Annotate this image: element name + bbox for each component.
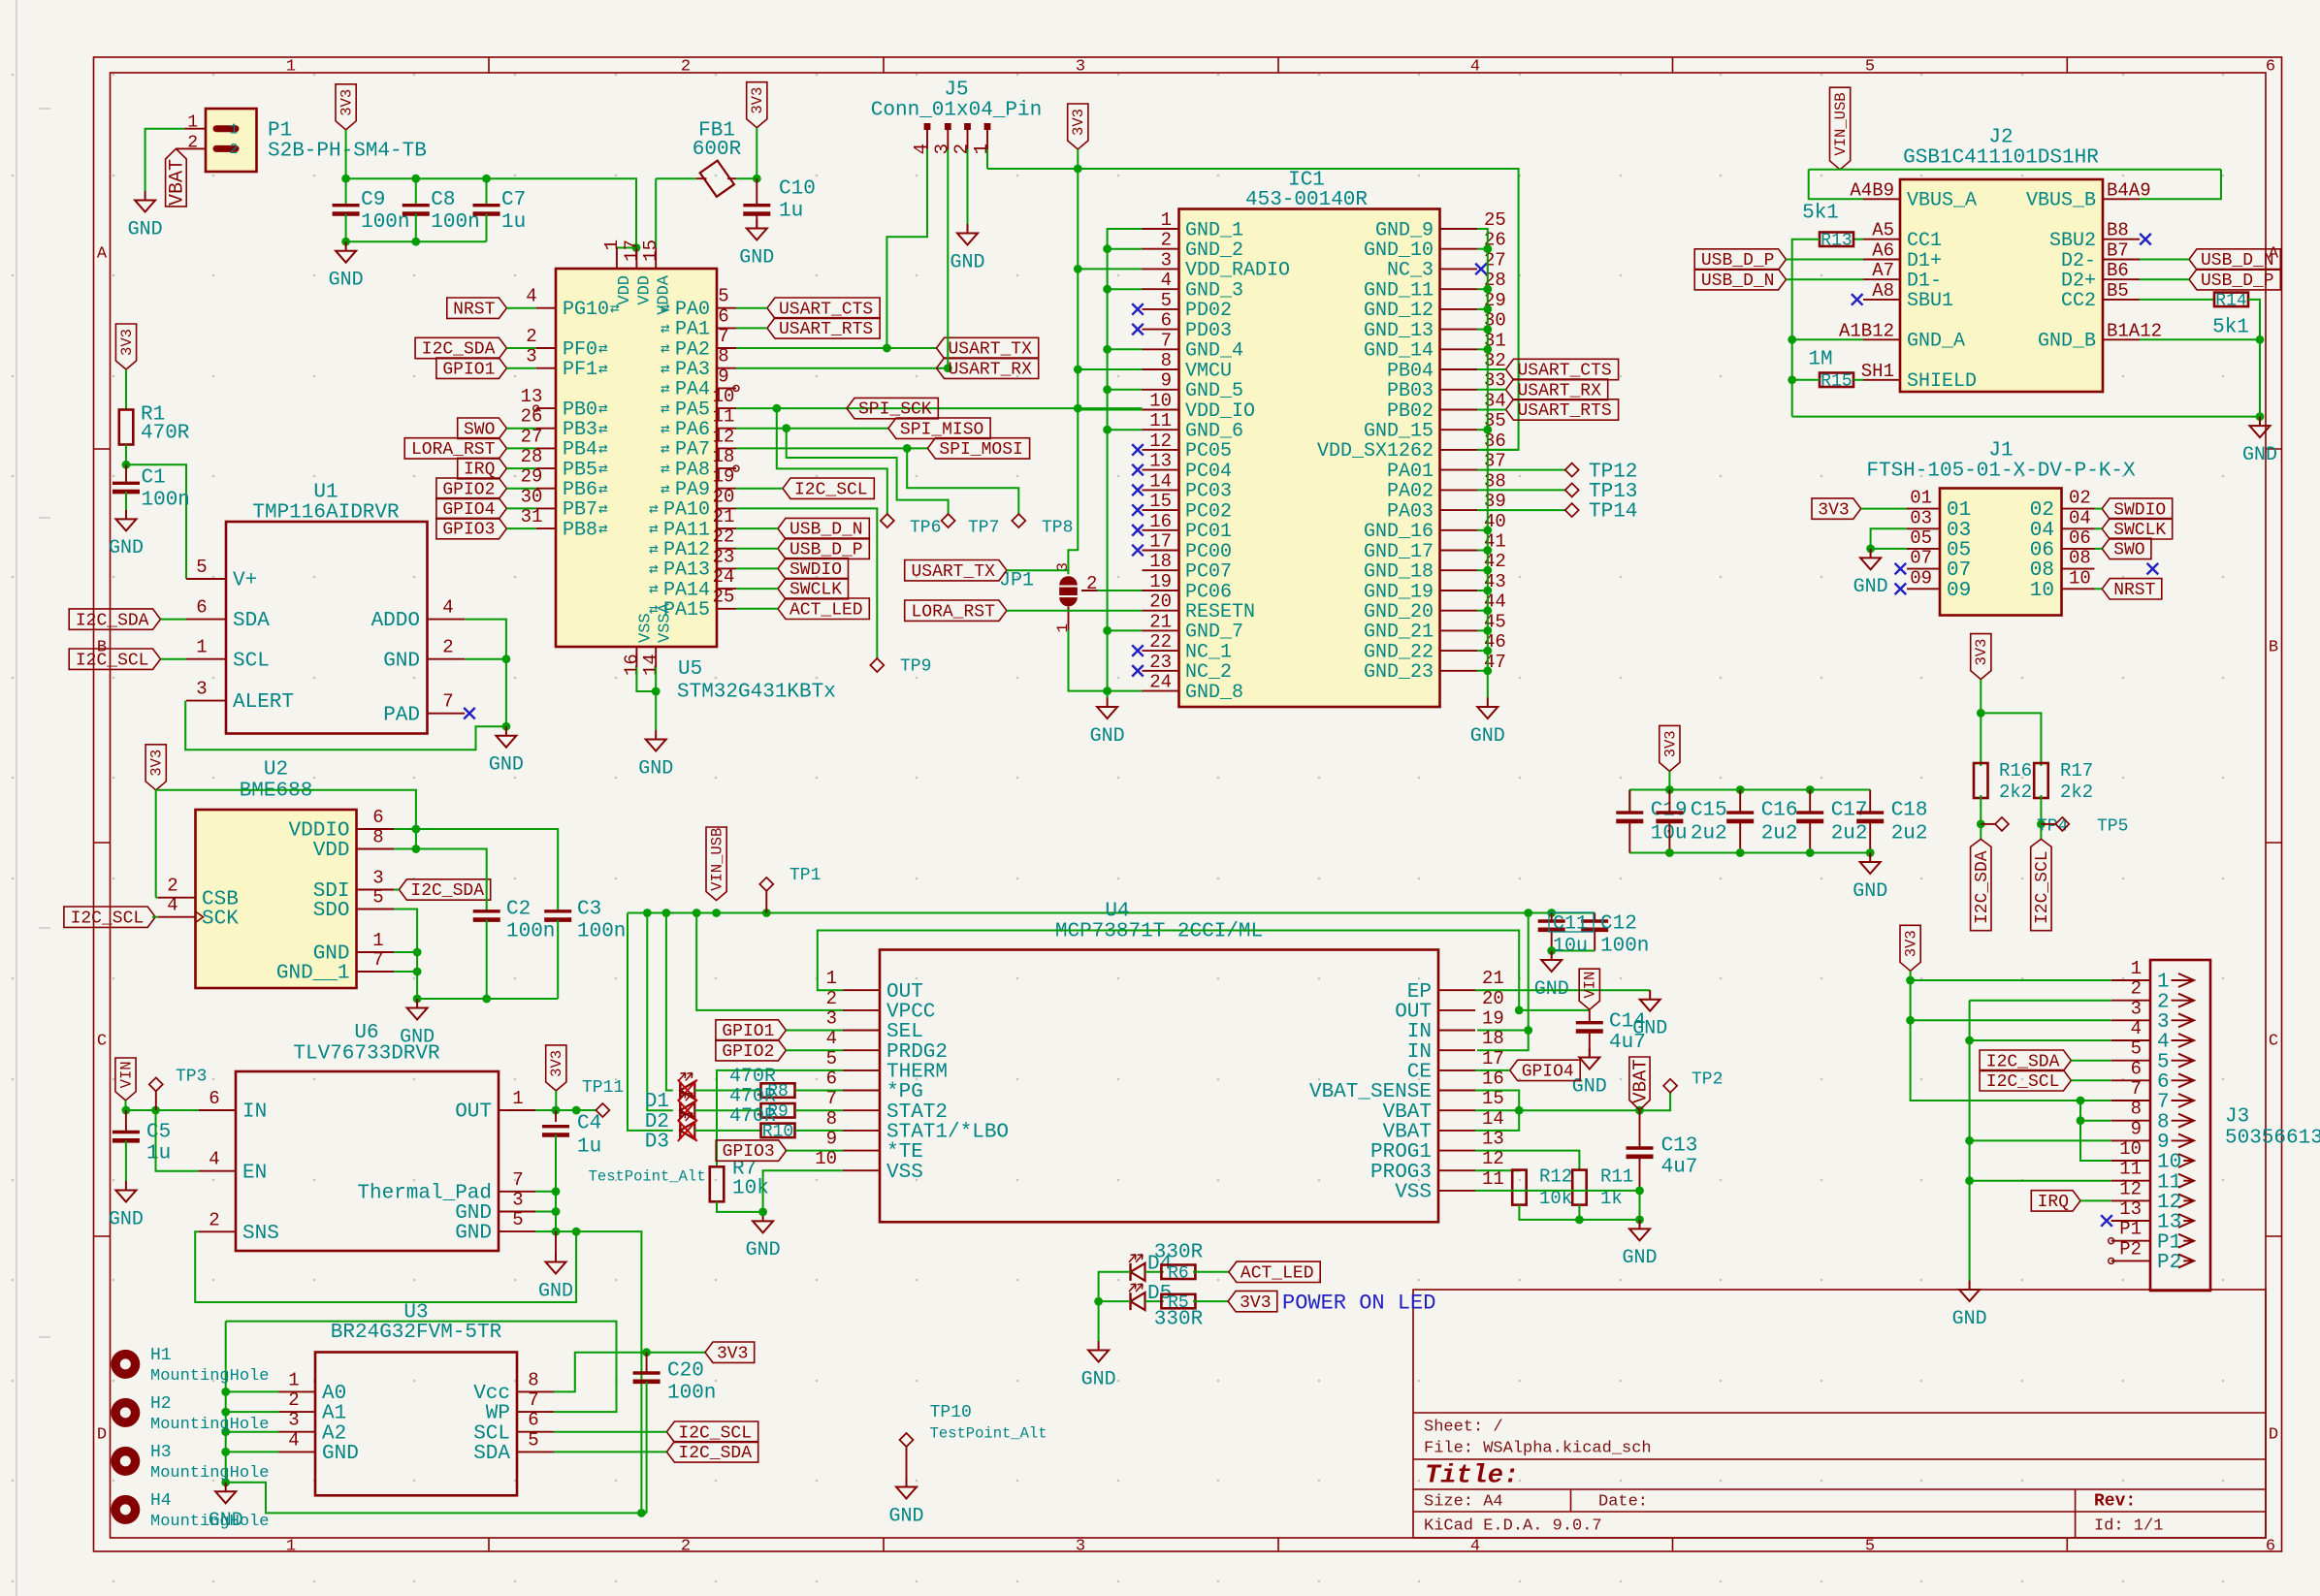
svg-text:GND: GND — [1952, 1308, 1987, 1330]
svg-text:⇄: ⇄ — [598, 481, 608, 498]
svg-text:B5: B5 — [2107, 280, 2129, 302]
svg-text:5: 5 — [2157, 1051, 2170, 1073]
svg-text:453-00140R: 453-00140R — [1245, 189, 1368, 211]
svg-text:GND: GND — [1090, 725, 1125, 748]
svg-text:VSS: VSS — [636, 613, 655, 643]
svg-text:07: 07 — [1947, 559, 1971, 582]
svg-text:STAT2: STAT2 — [886, 1101, 948, 1124]
svg-text:C20: C20 — [667, 1360, 704, 1383]
svg-text:⇄: ⇄ — [598, 400, 608, 418]
svg-text:A: A — [97, 244, 108, 263]
svg-text:GND_23: GND_23 — [1364, 661, 1434, 684]
svg-text:J3: J3 — [2225, 1106, 2249, 1129]
svg-text:PA4: PA4 — [675, 379, 710, 401]
svg-text:PA3: PA3 — [675, 359, 710, 381]
svg-text:USART_RTS: USART_RTS — [1518, 401, 1612, 421]
svg-text:19: 19 — [713, 466, 735, 488]
svg-text:MCP73871T-2CCI/ML: MCP73871T-2CCI/ML — [1055, 921, 1263, 943]
svg-text:17: 17 — [621, 239, 642, 262]
svg-text:09: 09 — [1910, 567, 1932, 589]
svg-text:A6: A6 — [1872, 239, 1894, 261]
svg-text:C2: C2 — [506, 899, 531, 921]
svg-text:R11: R11 — [1600, 1166, 1633, 1188]
svg-text:4: 4 — [288, 1429, 299, 1451]
svg-text:12: 12 — [2119, 1178, 2142, 1199]
svg-text:SPI_SCK: SPI_SCK — [858, 400, 932, 420]
svg-text:TMP116AIDRVR: TMP116AIDRVR — [252, 502, 400, 525]
svg-text:POWER ON LED: POWER ON LED — [1282, 1291, 1435, 1315]
svg-text:VDD: VDD — [635, 275, 654, 305]
svg-text:BME688: BME688 — [240, 781, 313, 803]
svg-text:3V3: 3V3 — [1973, 639, 1990, 666]
svg-text:GND_22: GND_22 — [1364, 641, 1434, 663]
svg-text:7: 7 — [372, 949, 383, 971]
svg-text:⇄: ⇄ — [661, 380, 670, 398]
svg-text:OUT: OUT — [1395, 1002, 1432, 1024]
svg-text:B: B — [2269, 638, 2278, 656]
svg-text:GND_10: GND_10 — [1364, 239, 1434, 262]
svg-text:PC05: PC05 — [1185, 440, 1232, 463]
svg-text:1: 1 — [196, 637, 207, 658]
svg-text:1: 1 — [286, 1537, 296, 1555]
svg-text:GND: GND — [383, 650, 420, 672]
svg-text:SCK: SCK — [202, 908, 239, 930]
svg-text:SPI_MOSI: SPI_MOSI — [939, 440, 1022, 460]
svg-text:PF0: PF0 — [563, 338, 597, 361]
svg-text:14: 14 — [640, 654, 661, 676]
svg-text:⇄: ⇄ — [598, 461, 608, 478]
svg-text:CC1: CC1 — [1907, 230, 1942, 252]
svg-text:USB_D_P: USB_D_P — [789, 540, 863, 559]
svg-text:5k1: 5k1 — [2212, 317, 2249, 339]
svg-text:IRQ: IRQ — [464, 461, 495, 480]
svg-text:IRQ: IRQ — [2038, 1193, 2069, 1212]
svg-text:1u: 1u — [577, 1135, 601, 1158]
svg-text:15: 15 — [640, 239, 661, 262]
svg-text:5: 5 — [718, 286, 728, 307]
svg-text:VSSA: VSSA — [656, 602, 674, 643]
svg-text:STAT1/*LBO: STAT1/*LBO — [886, 1122, 1009, 1144]
svg-text:SWO: SWO — [2113, 541, 2144, 560]
svg-text:H4: H4 — [150, 1491, 172, 1511]
svg-text:3V3: 3V3 — [118, 329, 136, 356]
svg-text:VIN_USB: VIN_USB — [1832, 92, 1850, 155]
svg-text:1u: 1u — [146, 1143, 171, 1165]
svg-text:GND: GND — [455, 1223, 492, 1245]
svg-text:14: 14 — [1482, 1108, 1504, 1130]
svg-text:GND_20: GND_20 — [1364, 601, 1434, 623]
svg-text:A1B12: A1B12 — [1839, 320, 1894, 341]
svg-text:WP: WP — [486, 1403, 510, 1425]
svg-text:P1: P1 — [2157, 1231, 2181, 1254]
svg-text:PA01: PA01 — [1387, 461, 1434, 483]
svg-text:PA9: PA9 — [675, 479, 710, 501]
svg-text:MountingHole: MountingHole — [150, 1416, 269, 1434]
svg-text:20: 20 — [713, 486, 735, 507]
svg-text:GPIO1: GPIO1 — [442, 360, 495, 379]
svg-text:USB_D_P: USB_D_P — [1701, 251, 1775, 271]
svg-text:24: 24 — [713, 566, 735, 588]
svg-text:8: 8 — [1161, 350, 1172, 371]
svg-text:P1: P1 — [2119, 1219, 2142, 1240]
svg-text:100n: 100n — [431, 211, 479, 234]
svg-text:5: 5 — [512, 1209, 523, 1230]
svg-text:GND_A: GND_A — [1907, 331, 1965, 353]
svg-text:S2B-PH-SM4-TB: S2B-PH-SM4-TB — [268, 141, 427, 163]
svg-text:13: 13 — [2119, 1198, 2142, 1220]
svg-text:TP2: TP2 — [1692, 1070, 1723, 1090]
svg-text:1: 1 — [512, 1088, 523, 1109]
svg-text:4: 4 — [1470, 57, 1480, 76]
svg-text:GND_B: GND_B — [2038, 331, 2096, 353]
svg-text:D1-: D1- — [1907, 271, 1942, 293]
svg-text:C: C — [97, 1032, 107, 1050]
svg-text:GND: GND — [1572, 1075, 1607, 1098]
svg-text:SHIELD: SHIELD — [1907, 370, 1977, 393]
svg-text:04: 04 — [2069, 507, 2091, 528]
svg-text:⇄: ⇄ — [649, 541, 659, 559]
svg-text:9: 9 — [718, 366, 728, 387]
svg-text:Id: 1/1: Id: 1/1 — [2094, 1516, 2163, 1535]
svg-text:I2C_SDA: I2C_SDA — [1986, 1052, 2060, 1071]
svg-text:5: 5 — [826, 1048, 837, 1069]
svg-text:3: 3 — [1076, 57, 1085, 76]
svg-text:GPIO3: GPIO3 — [442, 521, 495, 540]
svg-text:C1: C1 — [142, 467, 166, 490]
svg-text:U6: U6 — [354, 1022, 378, 1044]
svg-text:PA8: PA8 — [675, 459, 710, 481]
svg-text:C: C — [2269, 1032, 2278, 1050]
svg-text:⇄: ⇄ — [649, 500, 659, 518]
svg-text:7: 7 — [1161, 330, 1172, 351]
svg-text:4: 4 — [167, 895, 177, 916]
svg-text:3V3: 3V3 — [1818, 500, 1849, 520]
svg-text:PA02: PA02 — [1387, 481, 1434, 503]
svg-text:8: 8 — [826, 1108, 837, 1130]
svg-text:Title:: Title: — [1425, 1462, 1519, 1491]
svg-text:PB7: PB7 — [563, 499, 597, 522]
svg-text:10: 10 — [2157, 1152, 2181, 1174]
svg-text:SNS: SNS — [242, 1223, 279, 1245]
svg-text:TP13: TP13 — [1589, 481, 1637, 503]
svg-text:SDA: SDA — [233, 610, 270, 632]
svg-text:MountingHole: MountingHole — [150, 1464, 269, 1483]
svg-text:1: 1 — [2157, 972, 2170, 994]
svg-text:Conn_01x04_Pin: Conn_01x04_Pin — [871, 100, 1042, 122]
svg-text:11: 11 — [713, 406, 735, 428]
svg-text:09: 09 — [1947, 580, 1971, 602]
svg-text:2u2: 2u2 — [1891, 823, 1928, 846]
svg-text:TP7: TP7 — [968, 519, 999, 538]
svg-text:C13: C13 — [1661, 1135, 1698, 1158]
svg-text:A7: A7 — [1872, 260, 1894, 281]
svg-text:SBU1: SBU1 — [1907, 290, 1953, 312]
svg-text:⇄: ⇄ — [661, 320, 670, 337]
svg-text:C9: C9 — [361, 189, 385, 211]
svg-text:2: 2 — [526, 326, 536, 347]
svg-text:GND: GND — [746, 1239, 781, 1261]
svg-text:P2: P2 — [2157, 1252, 2181, 1274]
svg-text:TLV76733DRVR: TLV76733DRVR — [293, 1043, 440, 1066]
svg-text:PB02: PB02 — [1387, 400, 1434, 423]
svg-text:3: 3 — [2157, 1011, 2170, 1034]
svg-text:3V3: 3V3 — [548, 1050, 565, 1077]
svg-text:OUT: OUT — [886, 981, 923, 1004]
svg-text:FTSH-105-01-X-DV-P-K-X: FTSH-105-01-X-DV-P-K-X — [1866, 461, 2136, 483]
svg-text:PA14: PA14 — [663, 579, 710, 601]
svg-text:2k2: 2k2 — [1999, 782, 2032, 803]
svg-text:R15: R15 — [1821, 371, 1852, 391]
svg-text:C17: C17 — [1831, 800, 1868, 822]
svg-text:2: 2 — [187, 134, 198, 153]
svg-text:GND: GND — [1622, 1247, 1657, 1269]
svg-text:B8: B8 — [2107, 220, 2129, 241]
svg-text:07: 07 — [1910, 548, 1932, 569]
svg-text:4u7: 4u7 — [1661, 1157, 1698, 1179]
svg-text:6: 6 — [2266, 1537, 2275, 1555]
svg-text:GND: GND — [888, 1505, 923, 1527]
svg-text:VDDA: VDDA — [655, 274, 673, 315]
svg-text:GND_17: GND_17 — [1364, 541, 1434, 563]
svg-text:100n: 100n — [142, 490, 190, 512]
svg-text:PA12: PA12 — [663, 539, 710, 561]
svg-text:TP14: TP14 — [1589, 501, 1637, 524]
svg-text:10: 10 — [2030, 580, 2054, 602]
svg-text:C4: C4 — [577, 1113, 601, 1135]
svg-text:USART_TX: USART_TX — [949, 340, 1033, 360]
svg-text:08: 08 — [2069, 548, 2091, 569]
svg-text:3: 3 — [2131, 998, 2142, 1019]
svg-text:4: 4 — [911, 144, 932, 154]
svg-text:NC_2: NC_2 — [1185, 661, 1232, 684]
svg-text:11: 11 — [1482, 1168, 1504, 1190]
svg-text:7: 7 — [2157, 1092, 2170, 1114]
svg-text:25: 25 — [1484, 209, 1506, 231]
svg-text:7: 7 — [528, 1389, 538, 1411]
svg-text:3: 3 — [826, 1008, 837, 1030]
svg-text:2u2: 2u2 — [1691, 823, 1727, 846]
svg-text:GND_18: GND_18 — [1364, 561, 1434, 584]
svg-text:3V3: 3V3 — [1240, 1293, 1271, 1313]
svg-text:4: 4 — [1470, 1537, 1480, 1555]
svg-text:⇄: ⇄ — [649, 561, 659, 579]
svg-text:1: 1 — [229, 121, 238, 138]
svg-text:GND: GND — [128, 218, 163, 240]
svg-text:PA11: PA11 — [663, 519, 710, 541]
svg-text:SDO: SDO — [313, 900, 350, 922]
svg-text:5: 5 — [196, 557, 207, 578]
svg-text:20: 20 — [1149, 591, 1172, 613]
svg-text:VBAT: VBAT — [1383, 1122, 1432, 1144]
svg-text:VIN: VIN — [117, 1061, 135, 1088]
svg-text:TP12: TP12 — [1589, 461, 1637, 483]
svg-text:C14: C14 — [1609, 1011, 1646, 1034]
svg-text:P2: P2 — [2119, 1238, 2142, 1260]
svg-text:U4: U4 — [1105, 901, 1129, 923]
svg-text:PA5: PA5 — [675, 399, 710, 421]
svg-text:VDD_SX1262: VDD_SX1262 — [1317, 440, 1434, 463]
svg-text:05: 05 — [1910, 527, 1932, 549]
svg-text:16: 16 — [1149, 511, 1172, 532]
svg-text:GND: GND — [1853, 880, 1887, 903]
svg-text:330R: 330R — [1154, 1242, 1204, 1264]
svg-text:9: 9 — [2131, 1118, 2142, 1139]
svg-text:2: 2 — [442, 637, 453, 658]
svg-text:4: 4 — [2131, 1018, 2142, 1039]
svg-text:24: 24 — [1149, 672, 1172, 693]
svg-text:MountingHole: MountingHole — [150, 1367, 269, 1386]
svg-text:Rev:: Rev: — [2094, 1492, 2136, 1512]
svg-text:B4A9: B4A9 — [2107, 179, 2151, 201]
svg-text:PC06: PC06 — [1185, 581, 1232, 603]
svg-text:2k2: 2k2 — [2060, 782, 2093, 803]
svg-text:File: WSAlpha.kicad_sch: File: WSAlpha.kicad_sch — [1424, 1439, 1652, 1457]
svg-text:ACT_LED: ACT_LED — [1241, 1264, 1314, 1284]
svg-text:⇄: ⇄ — [661, 440, 670, 458]
svg-text:3V3: 3V3 — [717, 1344, 748, 1363]
svg-text:PA2: PA2 — [675, 338, 710, 361]
svg-text:100n: 100n — [577, 921, 626, 943]
svg-text:PB3: PB3 — [563, 419, 597, 441]
svg-text:PC00: PC00 — [1185, 541, 1232, 563]
svg-text:ALERT: ALERT — [233, 691, 294, 714]
svg-text:GND: GND — [950, 251, 984, 273]
svg-text:GND: GND — [1853, 576, 1888, 598]
svg-text:1: 1 — [187, 113, 198, 133]
svg-text:LORA_RST: LORA_RST — [911, 602, 995, 622]
svg-text:SWDIO: SWDIO — [789, 560, 842, 580]
svg-text:I2C_SDA: I2C_SDA — [422, 340, 496, 360]
svg-text:PA1: PA1 — [675, 319, 710, 341]
svg-text:I2C_SCL: I2C_SCL — [76, 651, 149, 670]
svg-text:PC03: PC03 — [1185, 481, 1232, 503]
svg-text:ADDO: ADDO — [371, 610, 420, 632]
svg-text:IN: IN — [1407, 1041, 1432, 1064]
svg-text:USB_D_N: USB_D_N — [1701, 271, 1775, 291]
svg-text:PD03: PD03 — [1185, 320, 1232, 342]
svg-text:06: 06 — [2030, 540, 2054, 562]
svg-text:03: 03 — [1947, 520, 1971, 542]
svg-text:19: 19 — [1149, 571, 1172, 592]
svg-text:USART_RX: USART_RX — [949, 360, 1033, 379]
svg-text:SWDIO: SWDIO — [2113, 500, 2166, 520]
svg-text:5: 5 — [1865, 57, 1875, 76]
svg-text:4: 4 — [442, 597, 453, 619]
svg-text:GND_6: GND_6 — [1185, 421, 1243, 443]
svg-text:3V3: 3V3 — [749, 87, 766, 114]
svg-text:U1: U1 — [313, 482, 338, 504]
svg-text:2: 2 — [681, 1537, 691, 1555]
svg-text:U2: U2 — [264, 759, 288, 782]
svg-text:11: 11 — [2119, 1159, 2142, 1180]
svg-text:THERM: THERM — [886, 1062, 948, 1084]
svg-text:21: 21 — [1482, 968, 1504, 989]
svg-text:*TE: *TE — [886, 1141, 923, 1164]
svg-text:5: 5 — [1161, 290, 1172, 311]
svg-text:VDD_RADIO: VDD_RADIO — [1185, 260, 1290, 282]
svg-text:⇄: ⇄ — [661, 461, 670, 478]
svg-text:USART_TX: USART_TX — [911, 562, 995, 582]
svg-text:GND_16: GND_16 — [1364, 521, 1434, 543]
svg-text:KiCad E.D.A. 9.0.7: KiCad E.D.A. 9.0.7 — [1424, 1516, 1602, 1535]
svg-text:3V3: 3V3 — [1903, 930, 1920, 957]
svg-text:470R: 470R — [729, 1086, 776, 1108]
svg-text:GPIO2: GPIO2 — [442, 480, 495, 499]
svg-text:5: 5 — [1865, 1537, 1875, 1555]
svg-text:RESETN: RESETN — [1185, 601, 1255, 623]
svg-text:D1+: D1+ — [1907, 250, 1942, 272]
svg-text:PA0: PA0 — [675, 299, 710, 321]
svg-text:10: 10 — [713, 386, 735, 407]
svg-text:⇄: ⇄ — [649, 521, 659, 538]
svg-text:GND_14: GND_14 — [1364, 340, 1434, 363]
svg-text:A8: A8 — [1872, 280, 1894, 302]
svg-text:PC04: PC04 — [1185, 461, 1232, 483]
svg-text:PD02: PD02 — [1185, 300, 1232, 322]
svg-text:GND_5: GND_5 — [1185, 380, 1243, 402]
svg-text:NRST: NRST — [453, 300, 495, 319]
svg-text:BR24G32FVM-5TR: BR24G32FVM-5TR — [331, 1322, 502, 1344]
svg-text:100n: 100n — [667, 1383, 716, 1405]
svg-text:SWCLK: SWCLK — [2113, 521, 2166, 540]
svg-text:8: 8 — [2157, 1111, 2170, 1133]
svg-text:PA10: PA10 — [663, 499, 710, 522]
svg-text:3V3: 3V3 — [1070, 109, 1087, 136]
svg-text:VDD: VDD — [313, 840, 350, 862]
svg-text:GND_8: GND_8 — [1185, 682, 1243, 704]
svg-text:R6: R6 — [1168, 1264, 1189, 1284]
svg-text:PROG3: PROG3 — [1370, 1162, 1432, 1184]
svg-text:R17: R17 — [2060, 760, 2093, 782]
svg-text:SPI_MISO: SPI_MISO — [900, 420, 983, 439]
svg-text:330R: 330R — [1154, 1309, 1204, 1331]
svg-text:17: 17 — [1482, 1048, 1504, 1069]
svg-text:1: 1 — [971, 144, 992, 154]
svg-text:10u: 10u — [1553, 935, 1588, 957]
svg-text:6: 6 — [2131, 1058, 2142, 1079]
svg-text:1: 1 — [288, 1369, 299, 1390]
svg-text:PC02: PC02 — [1185, 500, 1232, 523]
svg-text:A4B9: A4B9 — [1850, 179, 1894, 201]
svg-text:5: 5 — [372, 887, 383, 909]
svg-text:503566130: 503566130 — [2225, 1128, 2320, 1150]
svg-text:D1: D1 — [645, 1091, 669, 1113]
svg-text:13: 13 — [1149, 451, 1172, 472]
svg-text:⇄: ⇄ — [661, 340, 670, 358]
svg-text:C8: C8 — [431, 189, 455, 211]
svg-text:6: 6 — [528, 1410, 538, 1431]
svg-text:02: 02 — [2069, 488, 2091, 509]
svg-text:3V3: 3V3 — [148, 750, 166, 777]
svg-text:1: 1 — [826, 968, 837, 989]
svg-text:GND_12: GND_12 — [1364, 300, 1434, 322]
svg-text:3: 3 — [372, 868, 383, 889]
svg-text:4: 4 — [209, 1149, 219, 1170]
svg-text:IN: IN — [242, 1101, 267, 1124]
svg-text:1: 1 — [372, 930, 383, 951]
svg-text:C11: C11 — [1553, 912, 1588, 935]
svg-text:I2C_SCL: I2C_SCL — [1986, 1072, 2060, 1092]
svg-text:TP9: TP9 — [900, 657, 931, 677]
svg-text:470R: 470R — [729, 1066, 776, 1088]
svg-text:GND_7: GND_7 — [1185, 622, 1243, 644]
svg-text:3V3: 3V3 — [1661, 730, 1679, 757]
svg-text:GND_11: GND_11 — [1364, 280, 1434, 303]
svg-text:GND_15: GND_15 — [1364, 421, 1434, 443]
svg-text:⇄: ⇄ — [661, 421, 670, 438]
svg-text:TP4: TP4 — [2037, 817, 2068, 837]
svg-text:OUT: OUT — [455, 1101, 492, 1124]
